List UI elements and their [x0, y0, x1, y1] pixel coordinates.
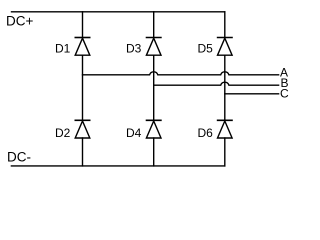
svg-text:D3: D3	[126, 41, 142, 55]
svg-text:D1: D1	[55, 41, 71, 55]
wire branch 3 lower segment (D6 anode to DC-)	[224, 138, 226, 166]
wire branch 2 middle segment (D3 anode to D4 cathode through node B)	[153, 55, 155, 120]
wire DC+ top rail	[12, 11, 225, 13]
wire branch 1 middle segment (D1 anode to D2 cathode through node A)	[82, 55, 84, 120]
wire phase line C (node C to right edge)	[225, 93, 279, 95]
wire branch 2 upper segment (DC+ to D3 cathode)	[153, 12, 155, 38]
wire branch 1 lower segment (D2 anode to DC-)	[82, 138, 84, 166]
diode D4	[146, 120, 161, 138]
wire branch 3 upper segment (DC+ to D5 cathode)	[224, 12, 226, 38]
diode D3	[146, 38, 161, 56]
svg-text:D4: D4	[126, 126, 142, 140]
diode D6	[218, 120, 233, 138]
svg-text:D5: D5	[198, 41, 214, 55]
diode D5	[218, 38, 233, 56]
diode D2	[75, 120, 90, 138]
svg-text:DC+: DC+	[6, 13, 33, 28]
svg-text:DC-: DC-	[7, 149, 31, 164]
wire DC- bottom rail	[11, 165, 224, 167]
svg-text:D2: D2	[55, 126, 71, 140]
diode D1	[75, 38, 90, 56]
wire phase line B (node B to right edge, hop over branch 3)	[154, 82, 279, 85]
wire branch 1 upper segment (DC+ to D1 cathode)	[82, 12, 84, 38]
wire branch 3 middle segment (D5 anode to D6 cathode through node C)	[224, 55, 226, 120]
wire phase line A (node A to right edge, hops over branches 2 and 3)	[83, 72, 279, 75]
svg-text:C: C	[280, 87, 289, 101]
wire branch 2 lower segment (D4 anode to DC-)	[153, 138, 155, 166]
svg-text:D6: D6	[198, 126, 214, 140]
